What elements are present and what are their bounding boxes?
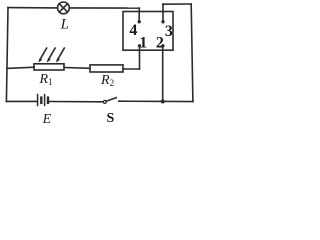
light arrow 2 onto R1 bbox=[47, 48, 56, 63]
terminal 1 dot bbox=[138, 44, 141, 47]
wire: bottom rail from bottom-left corner to battery bbox=[6, 100, 36, 102]
light arrow 1 onto R1 bbox=[38, 48, 46, 63]
svg-text:4: 4 bbox=[129, 22, 137, 39]
wire: lead from R2 right side to terminal-1 drop bbox=[123, 68, 140, 70]
wire: top rail from lamp to corner above terminal 4 bbox=[69, 7, 139, 9]
svg-text:E: E bbox=[42, 112, 52, 127]
svg-text:2: 2 bbox=[156, 35, 164, 52]
wire: top rail from top-left corner to lamp bbox=[8, 7, 58, 9]
battery E bbox=[38, 95, 48, 106]
wire: drop from top rail into box terminal 4 bbox=[138, 8, 140, 22]
wire: bottom rail from battery to switch bbox=[49, 101, 103, 103]
terminal 3 dot bbox=[161, 20, 164, 23]
wire: from terminal 2 down to bottom rail bbox=[162, 46, 164, 102]
svg-text:L: L bbox=[60, 16, 69, 32]
wire: bottom rail from switch to bottom-right corner bbox=[119, 100, 193, 102]
resistor R2 bbox=[90, 65, 123, 72]
switch S blade bbox=[106, 98, 116, 102]
terminal 2 dot bbox=[161, 44, 164, 47]
wire: lead between R1 and R2 bbox=[64, 67, 90, 70]
light arrow 3 onto R1 bbox=[56, 48, 65, 63]
wire: top-right horizontal link bbox=[163, 3, 191, 5]
resistor R1 (photoresistor box) bbox=[34, 64, 64, 70]
wire: from terminal 1 down to R2 lead bbox=[139, 46, 141, 69]
svg-text:3: 3 bbox=[165, 23, 173, 40]
svg-text:S: S bbox=[107, 111, 115, 126]
switch S pivot (open circle) bbox=[103, 100, 106, 103]
wire: R1 branch left lead bbox=[7, 67, 34, 68]
lamp L bbox=[58, 2, 70, 14]
junction: terminal-2 wire meets bottom rail bbox=[161, 100, 165, 104]
wire: right vertical rail bbox=[191, 4, 193, 102]
wire: from terminal 3 up to top-right link bbox=[162, 4, 164, 22]
wire: left vertical rail bbox=[6, 8, 8, 102]
terminal 4 dot bbox=[138, 20, 141, 23]
connector box U1 (terminal block) bbox=[123, 12, 173, 51]
svg-text:1: 1 bbox=[139, 35, 147, 52]
